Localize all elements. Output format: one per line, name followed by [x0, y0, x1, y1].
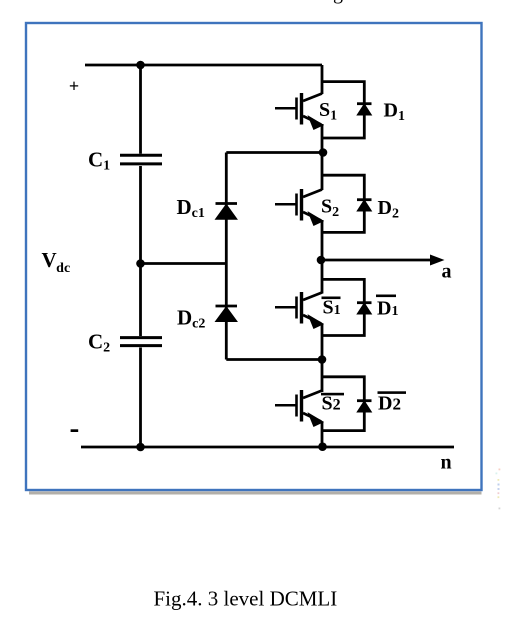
svg-text:Fig.4. 3 level DCMLI: Fig.4. 3 level DCMLI — [154, 587, 338, 611]
svg-text:n: n — [441, 452, 452, 474]
svg-text:S2: S2 — [322, 393, 341, 415]
svg-text:D2: D2 — [378, 393, 401, 415]
svg-text:g: g — [333, 0, 343, 4]
svg-text:+: + — [69, 76, 79, 96]
svg-text:a: a — [442, 261, 452, 283]
